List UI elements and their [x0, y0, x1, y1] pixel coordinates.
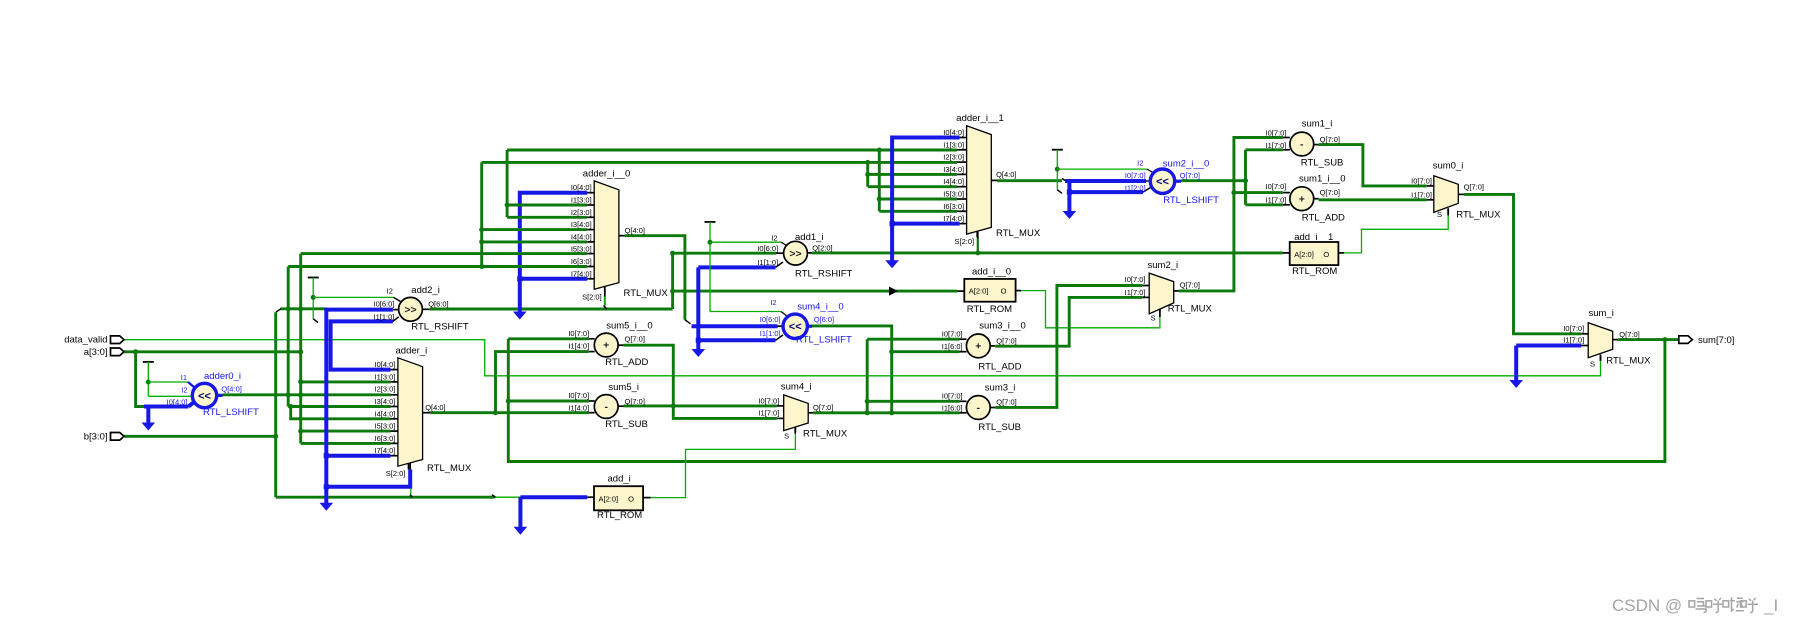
svg-text:+: + [1299, 193, 1305, 205]
wire blue stub down [146, 407, 150, 424]
svg-text:S[2:0]: S[2:0] [386, 469, 406, 478]
wire blue adder0_i I0 [144, 405, 189, 409]
svg-text:a[3:0]: a[3:0] [84, 347, 108, 358]
svg-text:>>: >> [789, 248, 801, 260]
junction adder_i__1 S [975, 250, 980, 255]
svg-text:I2: I2 [770, 298, 776, 307]
wire sum2_i__0 Q [1181, 179, 1246, 182]
junction sum5_i I0 [506, 399, 511, 404]
svg-text:Q[7:0]: Q[7:0] [625, 397, 645, 406]
svg-text:RTL_SUB: RTL_SUB [978, 422, 1021, 433]
watermark glyph wu [1689, 601, 1695, 607]
svg-text:I1[6:0]: I1[6:0] [942, 342, 963, 351]
arrow dangling adder0_i [142, 423, 156, 431]
mux sum2_i RTL_MUX body [1149, 273, 1174, 314]
const tie T add1 [705, 221, 716, 223]
pin stub adder_i S [409, 463, 411, 470]
wire adder_i I5 [301, 430, 391, 433]
wire blue adder_i__0 I7 [520, 277, 587, 281]
pin stub adder_i Q [423, 412, 431, 414]
mux adder_i__1 RTL_MUX body [967, 126, 992, 234]
svg-text:+: + [975, 341, 981, 353]
svg-text:RTL_MUX: RTL_MUX [427, 463, 472, 474]
wire sum3_i__0 I0 [867, 338, 959, 341]
svg-text:Q[7:0]: Q[7:0] [813, 403, 833, 412]
svg-text:Q[4:0]: Q[4:0] [425, 403, 445, 412]
svg-text:Q[7:0]: Q[7:0] [1320, 188, 1340, 197]
svg-text:Q[4:0]: Q[4:0] [996, 170, 1016, 179]
pin diag add1_i I2 [781, 242, 788, 246]
arrow dangling trunk x892 [885, 260, 899, 268]
svg-text:Q[4:0]: Q[4:0] [221, 385, 241, 394]
svg-text:adder_i__1: adder_i__1 [956, 113, 1004, 124]
wire vertical x507 [506, 150, 509, 217]
bus rip tick sum2 [1057, 190, 1062, 194]
junction blue I7 [324, 453, 329, 458]
pin stub sum_i S [1600, 356, 1602, 361]
wire sum3_i__0 I1 [892, 350, 960, 353]
wire vertical x1245 [1244, 150, 1247, 205]
bus rip tick Q1 [1062, 179, 1066, 182]
svg-text:I0[6:0]: I0[6:0] [374, 300, 395, 309]
wire blue into add_i A [520, 495, 587, 499]
wire vertical x867 [866, 339, 869, 413]
wire top long y162 [482, 161, 957, 164]
svg-text:I1[7:0]: I1[7:0] [1411, 191, 1432, 200]
svg-text:Q[7:0]: Q[7:0] [1619, 330, 1639, 339]
svg-text:I2: I2 [1137, 159, 1143, 168]
pin diag add1_i I1 [776, 262, 784, 267]
svg-text:RTL_MUX: RTL_MUX [1456, 210, 1501, 221]
svg-text:I0[7:0]: I0[7:0] [1563, 324, 1584, 333]
svg-text:add1_i: add1_i [795, 232, 824, 243]
svg-text:RTL_ROM: RTL_ROM [967, 304, 1012, 315]
wire sum4_i Q to sum3_i I1 [813, 411, 960, 414]
svg-text:I0[4:0]: I0[4:0] [571, 183, 592, 192]
svg-text:S: S [1590, 359, 1595, 368]
pin stub adder_i I7 [391, 455, 398, 457]
svg-text:<<: << [1156, 176, 1169, 188]
wire a down to adder0_i I0 [136, 352, 146, 407]
junction adder_i__0 I6 [479, 264, 484, 269]
svg-text:RTL_SUB: RTL_SUB [1301, 157, 1344, 168]
junction sum4_i__0 Q join [889, 410, 894, 415]
svg-text:sum3_i__0: sum3_i__0 [979, 321, 1025, 332]
svg-text:Q[6:0]: Q[6:0] [814, 315, 834, 324]
pin stub adder_i I5 [391, 430, 398, 432]
wire blue sum4_i__0 I0 [692, 324, 778, 328]
wire bottom long to add_i [276, 496, 495, 499]
svg-text:Q[7:0]: Q[7:0] [1320, 135, 1340, 144]
svg-text:I1[1:0]: I1[1:0] [757, 258, 778, 267]
wire sum3_i__0 Q to sum2_i I1 [995, 297, 1142, 346]
svg-text:Q[7:0]: Q[7:0] [625, 335, 645, 344]
pin stub sum1_i__0 I1 [1283, 204, 1290, 206]
svg-text:I2: I2 [387, 287, 393, 296]
junction sum3_i__0 I1 [889, 349, 894, 354]
pin stub sum3_i Q [990, 407, 995, 409]
wire sum1_i__0 I0 [1234, 191, 1283, 194]
pin diag add2_i I2 [394, 297, 401, 301]
mux sum0_i RTL_MUX body [1434, 176, 1459, 213]
wire vertical x482 [480, 162, 483, 266]
junction sum3_i I0 [865, 399, 870, 404]
pin diag adder0_i I1 [188, 382, 195, 388]
svg-text:<<: << [198, 390, 211, 402]
svg-text:sum1_i__0: sum1_i__0 [1299, 174, 1345, 185]
wire sum2_i Q to sum1_i I0 [1179, 138, 1283, 291]
svg-text:I4[4:0]: I4[4:0] [375, 409, 396, 418]
pin stub sum3_i I0 [960, 400, 967, 402]
pin stub sum4_i S [794, 428, 796, 432]
pin stub sum2_i S [1159, 306, 1161, 311]
wire branch to sum5_i__0 I1 [496, 352, 589, 413]
wire vertical x300 [299, 254, 302, 444]
svg-text:adder_i__0: adder_i__0 [583, 168, 631, 179]
wire blue adder_i I7 [326, 454, 390, 458]
svg-text:I1[4:0]: I1[4:0] [568, 403, 589, 412]
svg-text:I2[3:0]: I2[3:0] [943, 153, 964, 162]
svg-text:RTL_MUX: RTL_MUX [1606, 356, 1651, 367]
pin stub adder_i I0 [391, 369, 398, 371]
wire b[3:0] horizontal [124, 435, 276, 438]
svg-text:RTL_ADD: RTL_ADD [605, 357, 648, 368]
pin stub adder_i__1 I5 [957, 198, 967, 200]
pin diag sum2_i__0 I2 [1147, 169, 1154, 173]
shift sum4_i__0 RTL_LSHIFT [783, 314, 807, 338]
pin stub adder_i__0 I3 [587, 229, 594, 231]
svg-text:I0[7:0]: I0[7:0] [1125, 275, 1146, 284]
svg-text:I0[7:0]: I0[7:0] [568, 391, 589, 400]
arrow dangling trunk x698 [692, 349, 706, 357]
wire adder_i__0 I4 [482, 240, 588, 243]
svg-text:I2[3:0]: I2[3:0] [375, 385, 396, 394]
shift add2_i RTL_RSHIFT [399, 297, 423, 321]
shift sum2_i__0 RTL_LSHIFT [1150, 169, 1174, 193]
wire blue sum2_i__0 I1 [1069, 190, 1143, 194]
svg-text:I0[7:0]: I0[7:0] [1125, 171, 1146, 180]
pin stub sum2_i Q [1174, 290, 1179, 292]
pin stub sum4_i I0 [777, 405, 784, 407]
wire blue adder_i S [326, 470, 410, 487]
svg-text:I0[7:0]: I0[7:0] [1266, 129, 1287, 138]
svg-text:adder0_i: adder0_i [204, 371, 241, 382]
pin stub adder_i__0 I1 [587, 204, 594, 206]
pin stub adder_i__1 I6 [957, 210, 967, 212]
junction blue sum2_i__0 I1 [1067, 190, 1072, 195]
svg-text:RTL_MUX: RTL_MUX [1168, 304, 1213, 315]
pin stub sum2_i__0 I0 [1146, 180, 1151, 182]
svg-text:I3[4:0]: I3[4:0] [375, 397, 396, 406]
junction I4 tap [288, 404, 293, 409]
wire adder_i__1 S drop [977, 238, 979, 253]
bus rip tick b vertical top [276, 309, 281, 312]
pin stub sum4_i__0 I0 [778, 325, 784, 327]
wire sum0_i Q to sum_i I0 [1464, 194, 1581, 333]
svg-text:A[2:0]: A[2:0] [969, 287, 989, 296]
pin stub sum3_i__0 Q [990, 345, 995, 347]
pin stub adder_i__0 I0 [587, 192, 594, 194]
svg-text:I0[4:0]: I0[4:0] [943, 128, 964, 137]
pin stub sum1_i I1 [1283, 149, 1290, 151]
wire sum3_i I0 [867, 400, 959, 403]
wire sum2_i__0 I2 [1057, 168, 1147, 170]
pin stub sum5_i I0 [589, 400, 595, 402]
pin stub sum0_i S [1447, 208, 1449, 213]
wire green extension add2_i I0 net [281, 307, 327, 310]
svg-text:I0[7:0]: I0[7:0] [942, 330, 963, 339]
port a[3:0] [111, 348, 125, 356]
subtractor sum3_i RTL_SUB [966, 396, 990, 420]
junction adder_i__0 I3 [479, 227, 484, 232]
pin diag sum4_i__0 I2 [781, 312, 788, 317]
wire adder_i__0 I3 [482, 228, 588, 231]
svg-text:I7[4:0]: I7[4:0] [571, 269, 592, 278]
wire top long y150 [507, 149, 957, 152]
wire vertical x672 [671, 253, 674, 309]
pin stub adder_i__1 Q [991, 179, 997, 181]
junction I0 net x300 [298, 306, 303, 311]
svg-text:I7[4:0]: I7[4:0] [375, 446, 396, 455]
wire adder_i__0 I6 long [288, 265, 587, 268]
pin stub adder_i__1 I4 [957, 186, 967, 188]
svg-text:sum3_i: sum3_i [985, 383, 1016, 394]
junction Q line x300 [298, 392, 303, 397]
mux adder_i RTL_MUX body [398, 358, 423, 466]
wire blue add1_i I1 [698, 265, 775, 269]
junction blue S [324, 484, 329, 489]
rom add_i RTL_ROM [594, 486, 643, 510]
junction sum1_i__0 I0 [1231, 190, 1236, 195]
wire sum4_i__0 Q down [812, 326, 892, 413]
rom add_i__0 RTL_ROM [964, 279, 1015, 302]
wire adder_i__1 I3 [868, 173, 957, 176]
pin stub adder_i__0 Q [619, 235, 625, 237]
svg-text:RTL_MUX: RTL_MUX [803, 429, 848, 440]
wire blue add2_i I0 trunk down [326, 310, 393, 503]
junction x672 top [670, 251, 675, 256]
pin stub add_i__1 O [1338, 252, 1344, 254]
wire adder_i I1 [301, 380, 391, 383]
wire adder_i__1 Q [997, 179, 1062, 182]
pin stub sum5_i__0 I1 [589, 351, 595, 353]
svg-text:S[2:0]: S[2:0] [582, 292, 602, 301]
wire add_i__0 O to sum2_i S [1021, 291, 1160, 328]
pin stub adder_i I3 [391, 406, 398, 408]
pin stub add_i__1 A [1283, 252, 1290, 254]
wire thin S tap down [410, 489, 412, 495]
pin stub adder_i__1 S [977, 232, 979, 239]
wire sum4_i__0 I2 [710, 311, 781, 313]
wire sum feedback long bottom [508, 339, 1665, 462]
svg-text:I1[7:0]: I1[7:0] [1266, 195, 1287, 204]
svg-text:sum[7:0]: sum[7:0] [1698, 335, 1734, 346]
mux sum4_i RTL_MUX body [784, 395, 809, 431]
pin stub adder_i__0 I5 [587, 253, 594, 255]
wire blue trunk x1069 [1067, 181, 1071, 211]
svg-text:sum_i: sum_i [1589, 308, 1614, 319]
pin diag add2_i I1 [393, 317, 399, 322]
wire blue sum4_i__0 I1 [698, 338, 775, 342]
pin stub add1_i I0 [776, 252, 783, 254]
junction x879 top [877, 148, 882, 153]
pin stub add1_i Q [807, 252, 812, 254]
svg-text:S[2:0]: S[2:0] [954, 237, 974, 246]
mux adder_i__0 RTL_MUX body [594, 181, 619, 289]
wire sum1_i__0 Q to sum0_i I1 [1319, 198, 1427, 201]
pin stub sum1_i Q [1314, 144, 1319, 146]
wire add_i__1 O to sum0_i S [1344, 213, 1448, 253]
junction adder_i__1 I3 [865, 172, 870, 177]
const tie T add2 [308, 277, 319, 279]
junction on adder_i Q line [493, 410, 498, 415]
pin diag adder0_i I0 [189, 402, 195, 407]
pin stub adder_i__1 I0 [960, 137, 967, 139]
svg-text:I2: I2 [771, 234, 777, 243]
svg-text:I0[7:0]: I0[7:0] [758, 396, 779, 405]
svg-text:I0[6:0]: I0[6:0] [757, 244, 778, 253]
svg-text:>>: >> [404, 304, 416, 316]
svg-text:Q[7:0]: Q[7:0] [1464, 183, 1484, 192]
pin stub sum4_i Q [808, 412, 813, 414]
wire blue trunk x698 [696, 267, 700, 349]
svg-text:adder_i: adder_i [396, 345, 428, 356]
pin stub sum1_i__0 I0 [1283, 192, 1290, 194]
wire blue adder_i__1 I0 trunk x892 [892, 138, 960, 261]
svg-text:add_i__1: add_i__1 [1294, 232, 1333, 243]
svg-text:RTL_LSHIFT: RTL_LSHIFT [203, 407, 259, 418]
svg-text:I1[2:0]: I1[2:0] [1125, 183, 1146, 192]
pin stub adder_i__1 I3 [957, 173, 967, 175]
wire add_i O to sum4_i S [650, 432, 795, 498]
wire adder0_i Q to adder_i I2 [223, 393, 391, 396]
watermark glyph la [1723, 601, 1729, 607]
watermark glyph hu2 [1741, 601, 1747, 607]
arrow dangling trunk x1069 [1063, 211, 1077, 219]
svg-text:Q[7:0]: Q[7:0] [1180, 281, 1200, 290]
bus rip tick Q0 [685, 320, 691, 324]
net continuation arrow on add_i__0 A wire [889, 287, 898, 296]
junction const sum2 [1055, 167, 1060, 172]
pin stub adder_i__1 I7 [960, 223, 967, 225]
svg-text:I0[7:0]: I0[7:0] [1266, 182, 1287, 191]
svg-text:I1[1:0]: I1[1:0] [760, 329, 781, 338]
pin stub sum2_i I0 [1142, 285, 1149, 287]
svg-text:data_valid: data_valid [64, 335, 107, 346]
const tie T adder0 [143, 361, 154, 363]
subtractor sum1_i RTL_SUB [1290, 132, 1314, 156]
svg-text:I0[4:0]: I0[4:0] [167, 398, 188, 407]
wire vertical x879 [878, 150, 881, 211]
wire blue down sum_i I1 [1514, 346, 1518, 381]
svg-text:I7[4:0]: I7[4:0] [943, 214, 964, 223]
pin stub sum5_i__0 I0 [589, 338, 595, 340]
svg-text:CSDN @: CSDN @ [1612, 596, 1682, 615]
wire add1_i I0 [673, 252, 777, 255]
port b[3:0] [111, 433, 125, 441]
wire adder_i I3 [288, 405, 390, 408]
svg-text:A[2:0]: A[2:0] [599, 495, 619, 504]
svg-text:I0[7:0]: I0[7:0] [568, 329, 589, 338]
wire sum5_i I0 [508, 400, 589, 403]
wire blue adder_i__1 I7 [892, 222, 960, 226]
pin stub adder_i__0 I4 [587, 241, 594, 243]
junction const add1 [708, 240, 713, 245]
wire blue down from add_i A [518, 497, 522, 527]
svg-text:O: O [628, 495, 634, 504]
junction const add2 [311, 295, 316, 300]
svg-text:I0[7:0]: I0[7:0] [1411, 177, 1432, 186]
pin stub sum1_i__0 Q [1314, 198, 1319, 200]
arrow dangling trunk x520 [513, 312, 527, 320]
svg-text:sum5_i: sum5_i [608, 382, 639, 393]
junction adder_i__0 I1 [505, 203, 510, 208]
wire const vertical [147, 362, 149, 396]
wire adder_i__0 I1 [507, 204, 587, 207]
junction adder_i__1 I5 [877, 197, 882, 202]
svg-text:RTL_ROM: RTL_ROM [1292, 266, 1337, 277]
svg-text:-: - [604, 401, 608, 413]
pin stub adder_i__0 I7 [587, 278, 594, 280]
wire adder_i I6 [301, 442, 391, 445]
svg-text:S: S [784, 431, 789, 440]
svg-text:RTL_ADD: RTL_ADD [978, 362, 1021, 373]
pin stub adder_i I4 [391, 418, 398, 420]
wire sum5_i__0 I0 [508, 337, 589, 340]
rom add_i__1 RTL_ROM [1290, 242, 1339, 265]
svg-text:A[2:0]: A[2:0] [1294, 250, 1314, 259]
svg-text:I1[3:0]: I1[3:0] [571, 196, 592, 205]
junction b on vertical [273, 434, 278, 439]
svg-text:RTL_RSHIFT: RTL_RSHIFT [411, 322, 469, 333]
svg-text:<<: << [789, 321, 802, 333]
svg-text:sum2_i: sum2_i [1148, 260, 1179, 271]
subtractor sum5_i RTL_SUB [594, 395, 618, 419]
shift add1_i RTL_RSHIFT [784, 241, 808, 265]
wire adder_i__0 Q down [625, 236, 685, 320]
wire adder0_i I1 [148, 381, 188, 383]
svg-text:I1[3:0]: I1[3:0] [375, 372, 396, 381]
svg-text:sum2_i__0: sum2_i__0 [1163, 159, 1209, 170]
junction I5 [298, 429, 303, 434]
svg-text:Q[4:0]: Q[4:0] [625, 226, 645, 235]
pin stub adder_i__0 I2 [587, 216, 594, 218]
shift adder0_i RTL_LSHIFT [192, 383, 216, 407]
arrow dangling add_i [514, 527, 528, 535]
wire const vertical x710 [709, 222, 711, 312]
wire sum5_i Q to sum4_i I0 [624, 404, 777, 407]
pin stub sum0_i I0 [1427, 185, 1434, 187]
svg-text:I0[6:0]: I0[6:0] [760, 315, 781, 324]
wire blue sum2_i__0 I0 [1065, 179, 1146, 183]
svg-text:I6[3:0]: I6[3:0] [375, 434, 396, 443]
junction Q line x288 [286, 392, 291, 397]
junction x1245 [1243, 178, 1248, 183]
pin stub adder_i I6 [391, 442, 398, 444]
adder sum5_i__0 RTL_ADD [594, 333, 618, 357]
pin stub sum_i Q [1612, 339, 1618, 341]
svg-text:I1[7:0]: I1[7:0] [1563, 336, 1584, 345]
pin stub add_i A [587, 496, 594, 498]
svg-text:add_i: add_i [608, 473, 631, 484]
wire vertical x868 top [866, 162, 869, 186]
pin stub sum5_i Q [618, 405, 623, 407]
wire a[3:0] horizontal [124, 350, 301, 353]
junction blue sum4 I1 [696, 338, 701, 343]
svg-text:sum4_i: sum4_i [781, 381, 812, 392]
svg-text:I1[7:0]: I1[7:0] [1266, 141, 1287, 150]
pin stub adder_i I2 [391, 394, 398, 396]
